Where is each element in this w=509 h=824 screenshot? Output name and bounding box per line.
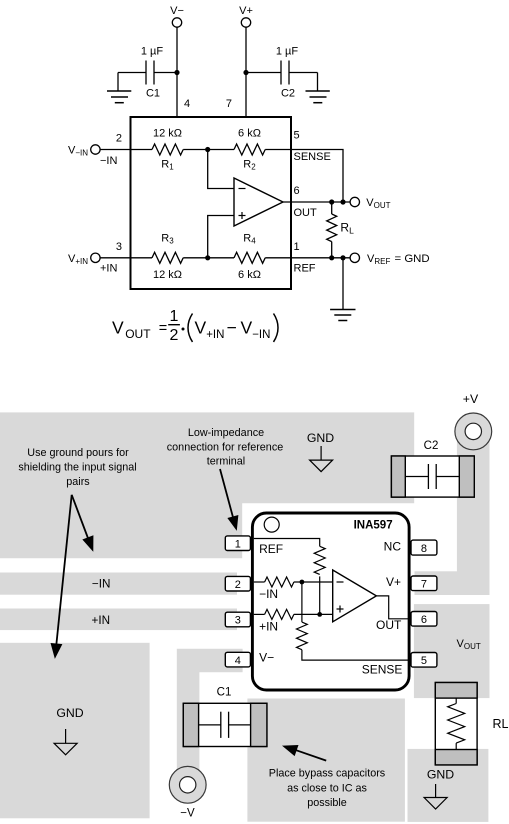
ground (VREF) bbox=[330, 310, 355, 321]
pad 6 bbox=[411, 612, 437, 627]
internal op-amp plus sign bbox=[337, 606, 344, 613]
wire R2 to SENSE pin 5 then down to out node bbox=[265, 150, 343, 202]
GND symbol top-middle bbox=[307, 431, 334, 472]
wire V+IN to box bbox=[100, 257, 152, 259]
node ref/gnd bbox=[340, 255, 345, 260]
node RL top bbox=[329, 199, 334, 204]
svg-text:GND: GND bbox=[427, 768, 454, 782]
arrow (low-impedance to pin1) bbox=[220, 469, 238, 530]
pad 4 bbox=[225, 652, 250, 667]
trace -IN bbox=[0, 573, 237, 595]
svg-text:GND: GND bbox=[56, 706, 83, 720]
svg-text:V+: V+ bbox=[239, 5, 253, 17]
svg-text:connection for reference: connection for reference bbox=[167, 441, 283, 453]
svg-text:2: 2 bbox=[235, 579, 241, 591]
svg-text:−IN: −IN bbox=[259, 587, 278, 601]
trace V+ pad7 horizontal bbox=[415, 571, 490, 595]
svg-text:Use ground pours for: Use ground pours for bbox=[27, 447, 129, 459]
op-amp minus sign bbox=[239, 188, 246, 190]
arrow diagonal (ground pours) bbox=[72, 495, 93, 551]
svg-text:Low-impedance: Low-impedance bbox=[188, 427, 264, 439]
equation VOUT = 1/2 (V+IN - V-IN) bbox=[112, 308, 278, 344]
svg-text:5: 5 bbox=[421, 655, 427, 667]
svg-text:pairs: pairs bbox=[66, 476, 90, 488]
pad 5 bbox=[411, 653, 437, 668]
arrow (place bypass caps to C1) bbox=[283, 746, 326, 761]
resistor R4 bbox=[234, 252, 265, 263]
terminal V+IN bbox=[68, 253, 100, 266]
wire node A to op-amp minus input bbox=[208, 150, 234, 189]
svg-text:possible: possible bbox=[307, 797, 347, 809]
svg-text:shielding the input signal: shielding the input signal bbox=[18, 462, 136, 474]
svg-text:7: 7 bbox=[421, 579, 427, 591]
svg-text:6 kΩ: 6 kΩ bbox=[238, 269, 261, 281]
trace +V vertical bbox=[457, 428, 490, 595]
ground (C1) bbox=[107, 91, 131, 103]
wire V-IN to box bbox=[100, 149, 152, 151]
terminal VREF bbox=[350, 253, 430, 266]
svg-text:V+: V+ bbox=[386, 575, 401, 589]
svg-text:2: 2 bbox=[116, 133, 122, 145]
wire op-amp output to VOUT bbox=[283, 201, 350, 203]
pin-1 indicator circle bbox=[264, 517, 279, 532]
arrow vertical (ground pours) bbox=[51, 495, 71, 658]
wire V- vertical to pin 4 bbox=[176, 27, 178, 117]
svg-text:−IN: −IN bbox=[92, 577, 111, 590]
svg-text:V−: V− bbox=[170, 5, 184, 17]
svg-text:6: 6 bbox=[421, 614, 427, 626]
svg-text:5: 5 bbox=[294, 130, 300, 142]
svg-text:7: 7 bbox=[226, 98, 232, 110]
internal wire R2 to SENSE line bbox=[302, 650, 411, 660]
svg-text:INA597: INA597 bbox=[354, 520, 393, 532]
svg-text:terminal: terminal bbox=[207, 455, 245, 467]
op-amp U1 bbox=[234, 178, 283, 226]
internal wire R1 to minus input bbox=[294, 581, 333, 583]
IC package INA597 (layout) bbox=[252, 513, 409, 690]
node RL bottom bbox=[329, 255, 334, 260]
svg-text:as close to IC as: as close to IC as bbox=[287, 783, 367, 795]
pad 7 bbox=[411, 576, 437, 591]
svg-text:+IN: +IN bbox=[92, 614, 111, 627]
svg-text:1: 1 bbox=[294, 241, 300, 253]
GND symbol bottom-right bbox=[424, 768, 454, 810]
pad 2 bbox=[225, 576, 250, 591]
svg-text:GND: GND bbox=[307, 431, 334, 445]
resistor RL (layout) bbox=[435, 683, 477, 765]
svg-text:REF: REF bbox=[259, 542, 283, 556]
svg-text:12 kΩ: 12 kΩ bbox=[153, 269, 182, 281]
wire R4 to REF pin1 and VREF terminal bbox=[265, 257, 350, 259]
svg-text:1 µF: 1 µF bbox=[276, 46, 299, 58]
wire R3 to node B bbox=[183, 257, 234, 259]
capacitor C1 bbox=[118, 61, 177, 92]
internal resistor R2 (feedback to SENSE) bbox=[297, 622, 308, 650]
svg-text:4: 4 bbox=[235, 655, 241, 667]
svg-text:3: 3 bbox=[235, 615, 241, 627]
terminal V+ bbox=[239, 5, 253, 27]
node B (non-inverting) bbox=[205, 255, 210, 260]
svg-text:RL: RL bbox=[493, 717, 509, 731]
resistor R3 bbox=[152, 252, 183, 263]
IC boundary box bbox=[131, 117, 292, 289]
pad 1 bbox=[225, 536, 250, 551]
svg-text:4: 4 bbox=[184, 98, 190, 110]
via -V bbox=[169, 766, 206, 803]
pour VOUT bbox=[414, 604, 490, 698]
internal: REF trace from pin1 bbox=[254, 539, 320, 547]
pad 8 bbox=[411, 540, 437, 555]
svg-text:OUT: OUT bbox=[376, 618, 402, 632]
internal node minus bbox=[300, 580, 305, 585]
internal resistor R1 (-IN) bbox=[265, 577, 294, 587]
svg-text:+V: +V bbox=[463, 392, 479, 406]
node A (inverting) bbox=[205, 147, 210, 152]
svg-text:+IN: +IN bbox=[100, 263, 117, 275]
internal: +IN wire entering bbox=[254, 613, 265, 615]
wire node B to op-amp plus input bbox=[208, 216, 234, 258]
ground pour bottom-right bbox=[408, 749, 489, 822]
internal: -IN wire entering bbox=[254, 581, 265, 583]
ground pour top-left bbox=[0, 412, 414, 558]
capacitor C2 (layout) bbox=[391, 456, 474, 497]
pad 3 bbox=[225, 612, 250, 627]
ground pour bottom-center bbox=[247, 699, 405, 822]
GND symbol bottom-left bbox=[54, 706, 84, 755]
svg-text:−V: −V bbox=[180, 808, 195, 820]
terminal V-IN bbox=[68, 145, 100, 158]
capacitor C2 bbox=[246, 61, 318, 92]
svg-text:8: 8 bbox=[421, 543, 427, 555]
svg-text:OUT: OUT bbox=[294, 207, 318, 219]
wire R1 to node A bbox=[183, 149, 234, 151]
svg-text:12 kΩ: 12 kΩ bbox=[153, 128, 182, 140]
capacitor C1 (layout) bbox=[183, 703, 267, 746]
resistor RL bbox=[327, 202, 354, 258]
internal wire minus node down to R2 bbox=[301, 582, 303, 622]
internal wire op-amp output to pad 6 bbox=[376, 596, 411, 619]
svg-text:=: = bbox=[159, 321, 167, 337]
svg-text:SENSE: SENSE bbox=[362, 663, 403, 677]
trace V- (pin4 to C1 and -V via) bbox=[177, 649, 243, 785]
via +V bbox=[455, 413, 492, 450]
svg-text:C2: C2 bbox=[281, 88, 295, 100]
ground pour bottom-left bbox=[0, 643, 150, 819]
node junction C2/V+ bbox=[243, 70, 248, 75]
svg-text:C1: C1 bbox=[217, 687, 232, 699]
svg-text:C2: C2 bbox=[424, 440, 439, 452]
op-amp plus sign bbox=[239, 212, 246, 219]
svg-text:Place bypass capacitors: Place bypass capacitors bbox=[269, 768, 386, 780]
svg-text:+IN: +IN bbox=[259, 619, 278, 633]
internal resistor R4 (REF to +node) bbox=[314, 546, 325, 574]
internal resistor R3 (+IN) bbox=[265, 609, 294, 619]
svg-text:1: 1 bbox=[170, 308, 179, 325]
internal node plus bbox=[317, 612, 322, 617]
svg-text:6: 6 bbox=[294, 185, 300, 197]
svg-text:SENSE: SENSE bbox=[294, 151, 331, 163]
internal wire R3 to plus input bbox=[294, 613, 333, 615]
internal op-amp triangle bbox=[333, 570, 377, 622]
svg-text:−IN: −IN bbox=[100, 155, 117, 167]
wire ref node to ground bbox=[342, 258, 344, 310]
internal op-amp minus sign bbox=[337, 581, 344, 583]
svg-text:C1: C1 bbox=[146, 88, 160, 100]
trace +IN bbox=[0, 609, 237, 631]
node junction C1/V- bbox=[174, 70, 179, 75]
svg-text:NC: NC bbox=[384, 540, 402, 554]
ground (C2) bbox=[306, 91, 330, 103]
svg-text:1: 1 bbox=[235, 538, 241, 550]
svg-text:V−: V− bbox=[259, 651, 274, 665]
svg-text:3: 3 bbox=[116, 241, 122, 253]
terminal VOUT bbox=[350, 197, 391, 210]
resistor R2 bbox=[234, 144, 265, 155]
internal wire R4 to +IN node bbox=[319, 576, 321, 614]
svg-text:2: 2 bbox=[170, 327, 179, 344]
svg-text:−: − bbox=[227, 318, 237, 338]
wire V+ vertical to pin 7 bbox=[245, 27, 247, 117]
terminal V- bbox=[170, 5, 184, 27]
svg-text:6 kΩ: 6 kΩ bbox=[238, 128, 261, 140]
node sense/out bbox=[340, 199, 345, 204]
svg-text:REF: REF bbox=[294, 262, 316, 274]
resistor R1 bbox=[152, 144, 183, 155]
svg-text:1 µF: 1 µF bbox=[141, 46, 164, 58]
